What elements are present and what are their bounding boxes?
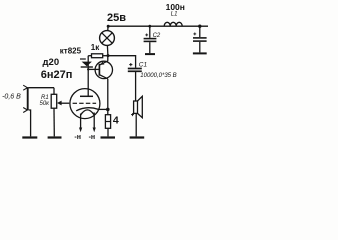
wire: base lead <box>88 68 99 70</box>
tube grid (dashed) <box>73 102 97 104</box>
svg-text:кт825: кт825 <box>60 47 82 56</box>
svg-text:100н: 100н <box>166 2 185 12</box>
junction dot rail-lamp <box>107 25 110 28</box>
svg-text:25в: 25в <box>107 12 126 24</box>
capacitor C3 <box>193 25 207 54</box>
svg-text:L1: L1 <box>171 11 178 17</box>
wire: +25v supply rail <box>108 25 208 27</box>
tick mark left of diode <box>80 58 86 60</box>
resistor R3 4 <box>105 115 110 137</box>
transistor кт825 <box>95 61 112 79</box>
resistor R2 1к <box>88 54 108 58</box>
lamp HL1 <box>100 26 115 55</box>
wire: tube cathode to collector column <box>98 108 107 110</box>
svg-text:С1: С1 <box>139 62 148 69</box>
wire: C1 to speaker <box>135 72 137 101</box>
wire: collector down to resistor 4 <box>107 79 109 115</box>
speaker BA1 <box>131 96 142 136</box>
svg-text:10000,0*35 В: 10000,0*35 В <box>140 73 176 79</box>
wire: anode / diode column <box>87 56 89 96</box>
diode д20 <box>81 62 93 67</box>
tube filament leads with arrows <box>79 113 96 133</box>
ground: R1 <box>48 136 62 138</box>
node: emitter node dot <box>107 54 110 57</box>
junction dot base/anode <box>87 68 89 70</box>
wire: input shield to ground <box>29 110 31 136</box>
junction dot collector/cathode <box>106 108 110 112</box>
tube 6н27п envelope <box>70 89 100 119</box>
svg-text:4: 4 <box>113 114 119 126</box>
potentiometer R1 <box>51 88 57 137</box>
svg-text:-0,6 В: -0,6 В <box>2 93 21 100</box>
ground: speaker <box>130 136 145 138</box>
capacitor C2 <box>144 25 157 54</box>
wire: input to R1 top <box>29 87 55 89</box>
tube anode plate <box>80 95 93 97</box>
ground: resistor 4 <box>101 136 116 138</box>
wire: grid to R1 wiper with arrow <box>57 101 69 106</box>
svg-text:50к: 50к <box>40 101 51 107</box>
tube cathode/filament arcs <box>76 108 98 111</box>
svg-text:1к: 1к <box>91 43 100 52</box>
svg-text:д20: д20 <box>43 57 60 68</box>
ground: input <box>22 136 37 138</box>
inductor L1 <box>164 22 182 26</box>
svg-text:6н27п: 6н27п <box>41 69 73 81</box>
capacitor C1 <box>128 63 142 71</box>
svg-text:-н: -н <box>89 134 96 141</box>
svg-text:С2: С2 <box>153 33 161 39</box>
wire: emitter node to C1 <box>108 56 136 68</box>
svg-text:-н: -н <box>74 134 81 141</box>
wire: emitter to node <box>107 56 109 61</box>
connector: input jack <box>23 85 28 112</box>
